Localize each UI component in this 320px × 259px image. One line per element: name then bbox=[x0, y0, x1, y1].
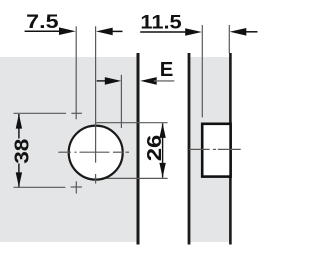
door panel right edge bbox=[137, 53, 140, 245]
extension line at x=76 (screw hole axis, from 7.5 dim) bbox=[75, 26, 77, 119]
door panel (left, gray) bbox=[0, 57, 137, 242]
svg-text:26: 26 bbox=[144, 135, 166, 162]
cup centre line horizontal (dash-dot) bbox=[58, 151, 129, 153]
26 top extension line bbox=[96, 122, 168, 124]
38 top extension line bbox=[14, 112, 67, 114]
cabinet side panel (right, gray) bbox=[190, 57, 230, 242]
cup axis lower dash crossing circle bottom bbox=[95, 174, 97, 184]
mounting plate centre line (dash-dot) bbox=[189, 148, 241, 150]
screw hole cross bottom bbox=[71, 181, 82, 193]
svg-text:11.5: 11.5 bbox=[140, 12, 182, 33]
hinge cup hole circle bbox=[69, 126, 123, 180]
dimension 11.5 opposing left-pointing arrow bbox=[230, 28, 258, 36]
side panel left edge bbox=[188, 53, 191, 245]
E dimension right-pointing arrow (at cup edge) bbox=[97, 77, 122, 85]
extension line / cup axis at x=95.6 bbox=[95, 26, 97, 162]
svg-text:E: E bbox=[160, 59, 174, 81]
26 bottom extension line bbox=[107, 177, 168, 179]
dimension 7.5 line and right-pointing arrow bbox=[25, 27, 76, 35]
dimension 7.5 opposing left-pointing arrow bbox=[96, 28, 123, 36]
side panel right edge bbox=[229, 53, 232, 245]
E dimension left-pointing arrow (at door edge) bbox=[140, 77, 174, 85]
screw hole cross top bbox=[71, 112, 82, 114]
extension line at x=229.3 (for 11.5 dim) bbox=[228, 25, 230, 53]
dimension 26 vertical line with arrows bbox=[159, 123, 165, 177]
extension line at x=121.4 (cup edge, for E dim) bbox=[120, 75, 122, 128]
dimension 11.5 line and right-pointing arrow bbox=[140, 28, 202, 36]
38 bottom extension line bbox=[14, 186, 66, 188]
extension line at x=202.3 (for 11.5 dim) bbox=[201, 25, 203, 117]
svg-text:38: 38 bbox=[11, 139, 33, 164]
dimension 38 vertical line with arrows (broken for text) bbox=[16, 114, 22, 187]
svg-text:7.5: 7.5 bbox=[26, 12, 59, 33]
mounting plate rectangle bbox=[202, 124, 230, 177]
